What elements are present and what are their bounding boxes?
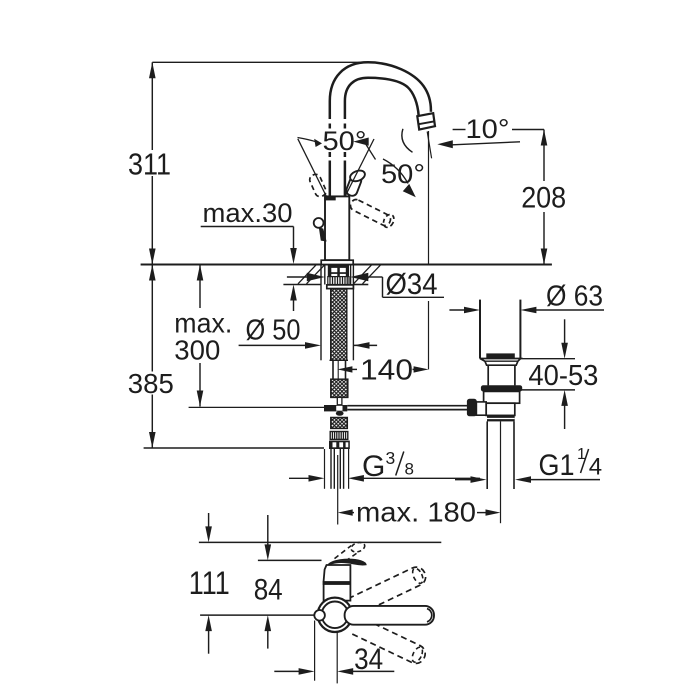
- svg-text:8: 8: [405, 460, 414, 479]
- svg-text:10°: 10°: [466, 114, 510, 144]
- svg-text:3: 3: [386, 448, 396, 468]
- svg-text:84: 84: [254, 574, 283, 607]
- svg-text:385: 385: [128, 368, 174, 399]
- svg-text:40-53: 40-53: [528, 360, 598, 392]
- svg-text:Ø 50: Ø 50: [246, 315, 301, 347]
- svg-text:208: 208: [521, 182, 566, 215]
- svg-text:G: G: [362, 450, 385, 483]
- svg-text:Ø34: Ø34: [386, 268, 438, 301]
- svg-text:34: 34: [354, 643, 383, 676]
- svg-text:50°: 50°: [381, 159, 425, 189]
- svg-text:Ø 63: Ø 63: [546, 281, 603, 313]
- svg-text:G1: G1: [539, 449, 575, 482]
- svg-text:300: 300: [174, 335, 220, 366]
- svg-text:max.30: max.30: [203, 198, 293, 228]
- svg-text:4: 4: [589, 454, 602, 481]
- svg-text:50°: 50°: [323, 126, 367, 156]
- svg-text:311: 311: [128, 147, 171, 182]
- svg-text:max. 180: max. 180: [356, 497, 476, 528]
- svg-text:111: 111: [189, 565, 230, 601]
- svg-text:140: 140: [360, 355, 413, 387]
